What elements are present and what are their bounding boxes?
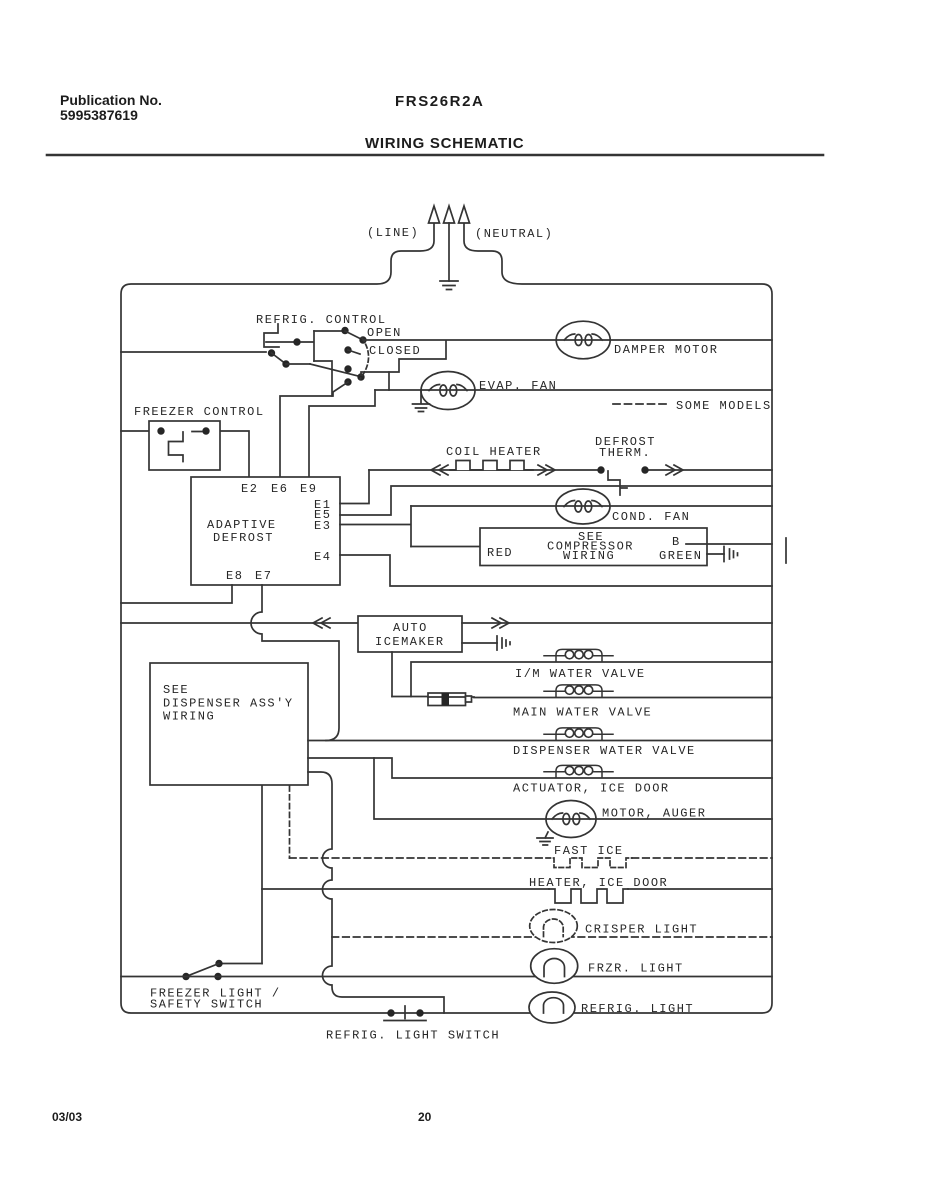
freezer control internal element [169,432,203,462]
solenoid coil actuator ice door [544,765,613,777]
node refrig control D6 closed contact [344,346,351,353]
freezer light LP2 [531,949,578,984]
svg-text:CLOSED: CLOSED [369,344,421,358]
node freezer control left contact [157,427,164,434]
svg-text:FRZR. LIGHT: FRZR. LIGHT [588,962,684,976]
safety switch blade [186,964,219,977]
wire D1 to pivot riser [301,331,314,361]
ground at auger motor [537,832,553,845]
wire B terminal to right bus [686,543,772,545]
svg-text:SAFETY SWITCH: SAFETY SWITCH [150,998,263,1012]
wire dispenser box bottom drop to safety switch branch [261,786,263,964]
refrig light switch contacts [384,1006,426,1021]
auto icemaker box [358,616,462,652]
evap fan motor M2 [421,372,475,410]
node refrig control D3 [282,360,289,367]
svg-text:SOME MODELS: SOME MODELS [676,399,772,413]
svg-text:OPEN: OPEN [367,326,402,340]
defrost coil heater element [450,461,533,471]
chassis ground at green lead [724,547,738,562]
wire long riser from dispenser box with hops [308,772,444,1013]
neutral terminal arrow [459,206,470,223]
condenser fan motor M3 [556,489,610,524]
switch blade D2 to D3 [272,353,287,364]
center ground wire [448,223,450,281]
svg-text:REFRIG. CONTROL: REFRIG. CONTROL [256,313,387,327]
wire fast ice dashed drop [289,786,291,858]
crisper light LP1 [530,910,578,943]
solenoid coil i/m water valve [544,649,613,661]
line terminal arrow [429,206,440,223]
wire fast ice dashed row [290,857,773,859]
svg-text:RED: RED [487,546,513,560]
svg-text:E2: E2 [241,482,258,496]
svg-text:WIRING: WIRING [563,549,615,563]
wire closed contact drop to evap row [388,372,390,390]
svg-text:COIL HEATER: COIL HEATER [446,445,542,459]
icemaker feed arrows [313,618,330,628]
svg-text:I/M WATER VALVE: I/M WATER VALVE [515,667,646,681]
wire damper motor row [363,339,772,341]
wire RED lead to compressor box [411,546,480,548]
svg-text:E4: E4 [314,550,331,564]
svg-text:REFRIG. LIGHT: REFRIG. LIGHT [581,1002,694,1016]
wire icemaker feed row [121,622,358,624]
wire pin E1 to coil heater row [340,470,369,504]
damper motor M1 [556,321,610,359]
wire crisper light dashed row [332,936,772,938]
ground at evap fan [413,390,430,412]
node defrost thermostat right [641,466,648,473]
wire dispenser water valve row [308,740,772,742]
wire pin E7 riser with hop and run to dispenser valve row [251,585,339,741]
node refrig control D5 open contact [359,336,366,343]
wire pin E8 to left bus [121,585,232,603]
chassis ground at icemaker [497,636,510,650]
svg-text:WIRING: WIRING [163,710,215,724]
footer page number [418,1110,431,1124]
wire GREEN lead [707,553,724,555]
ground symbol line cord [440,281,458,290]
some models dashed legend [613,403,668,405]
node refrig control D7 [344,365,351,372]
refrig control sensor bracket [264,324,293,347]
wire left bus to refrig control [121,351,266,353]
wire D8 closed path to damper row [361,341,446,375]
stray mark right margin [785,538,787,563]
footer date [52,1110,82,1124]
svg-text:EVAP. FAN: EVAP. FAN [479,379,557,393]
svg-text:E7: E7 [255,569,272,583]
wire E9 riser to evap row [309,390,375,477]
svg-text:E6: E6 [271,482,288,496]
wire evap fan row [375,389,772,391]
svg-text:THERM.: THERM. [599,446,651,460]
wire D9 to E6 riser [280,382,348,477]
svg-text:DISPENSER ASS'Y: DISPENSER ASS'Y [163,697,294,711]
stub at D6 [348,350,360,354]
solenoid coil dispenser water valve [544,728,613,740]
svg-text:E9: E9 [300,482,317,496]
freezer control box [149,421,220,470]
node refrig control D9 [344,378,351,385]
svg-text:FAST ICE: FAST ICE [554,844,624,858]
node defrost thermostat left [597,466,604,473]
wire icemaker bottom to valve junction [391,652,393,697]
svg-text:E3: E3 [314,519,331,533]
svg-text:AUTO: AUTO [393,621,428,635]
wire freezer light row [121,976,772,978]
wire pin E3 to cond fan riser [340,506,411,547]
node refrig control D1 [293,338,300,345]
node freezer control right contact [202,427,209,434]
title wiring schematic [365,135,524,152]
svg-text:MAIN WATER VALVE: MAIN WATER VALVE [513,706,652,720]
wire icemaker ground stub [462,642,497,644]
svg-text:HEATER, ICE DOOR: HEATER, ICE DOOR [529,876,668,890]
main enclosure outline left/top with line-cord bump [121,223,772,1013]
svg-text:REFRIG. LIGHT SWITCH: REFRIG. LIGHT SWITCH [326,1029,500,1043]
icemaker right arrows [492,618,509,628]
see dispenser assy wiring box [150,663,308,785]
fast ice heater element dashed [546,858,632,868]
switch blade D4 to D5 [345,331,361,339]
wire pin E4 row [340,555,772,586]
center ground arrow [444,206,455,223]
adaptive defrost control U1 [191,477,340,585]
node refrig control D2 [268,349,275,356]
wire D3 right [286,363,310,365]
defrost therm arrows right [666,465,683,475]
wire condenser fan row [411,505,772,507]
freezer control supply wire [121,431,249,477]
svg-text:COND. FAN: COND. FAN [612,510,690,524]
svg-text:DISPENSER WATER VALVE: DISPENSER WATER VALVE [513,744,696,758]
svg-text:SEE: SEE [163,683,189,697]
svg-text:ACTUATOR, ICE DOOR: ACTUATOR, ICE DOOR [513,782,670,796]
wire auger motor riser and row [374,758,772,819]
wire safety switch branch [221,963,262,965]
fuse F1 [428,693,474,706]
node refrig control D8 [357,373,364,380]
defrost thermostat element [608,471,627,495]
wire heater ice door row [262,888,772,890]
wire i/m water valve row [411,662,772,697]
heater ice door element [549,889,628,903]
node safety switch right contact [214,973,221,980]
wire pin E5 row [340,486,772,515]
svg-text:MOTOR, AUGER: MOTOR, AUGER [602,807,706,821]
auger motor M4 [546,801,596,838]
refrigerator light LP3 [529,992,575,1023]
wire icemaker right lead row [462,622,772,624]
svg-text:(LINE): (LINE) [367,226,419,240]
wire pivot top to D4 [314,330,341,332]
header publication no [60,93,162,123]
wire actuator ice door lead and row [308,758,772,778]
rotary switch arc [360,338,369,379]
svg-text:CRISPER LIGHT: CRISPER LIGHT [585,923,698,937]
node refrig control D4 [341,327,348,334]
wire pivot bottom jog [314,361,332,396]
wire coil heater row [369,469,772,471]
node safety switch left contact [182,973,189,980]
svg-text:ICEMAKER: ICEMAKER [375,635,445,649]
coil heater arrows right [538,465,555,475]
svg-text:E8: E8 [226,569,243,583]
svg-text:ADAPTIVE: ADAPTIVE [207,518,277,532]
header model number [395,93,485,110]
node safety switch upper contact [215,960,222,967]
svg-text:DAMPER MOTOR: DAMPER MOTOR [614,343,718,357]
svg-text:FREEZER CONTROL: FREEZER CONTROL [134,405,265,419]
svg-text:(NEUTRAL): (NEUTRAL) [475,227,553,241]
switch blade D3 to D8 [310,364,358,376]
wire main water valve row [392,697,772,698]
coil heater arrows left [431,465,448,475]
svg-text:GREEN: GREEN [659,549,703,563]
solenoid coil main water valve [544,685,613,697]
svg-text:DEFROST: DEFROST [213,531,274,545]
svg-text:B: B [672,535,681,549]
compressor wiring box [480,528,707,566]
title rule [47,154,823,157]
